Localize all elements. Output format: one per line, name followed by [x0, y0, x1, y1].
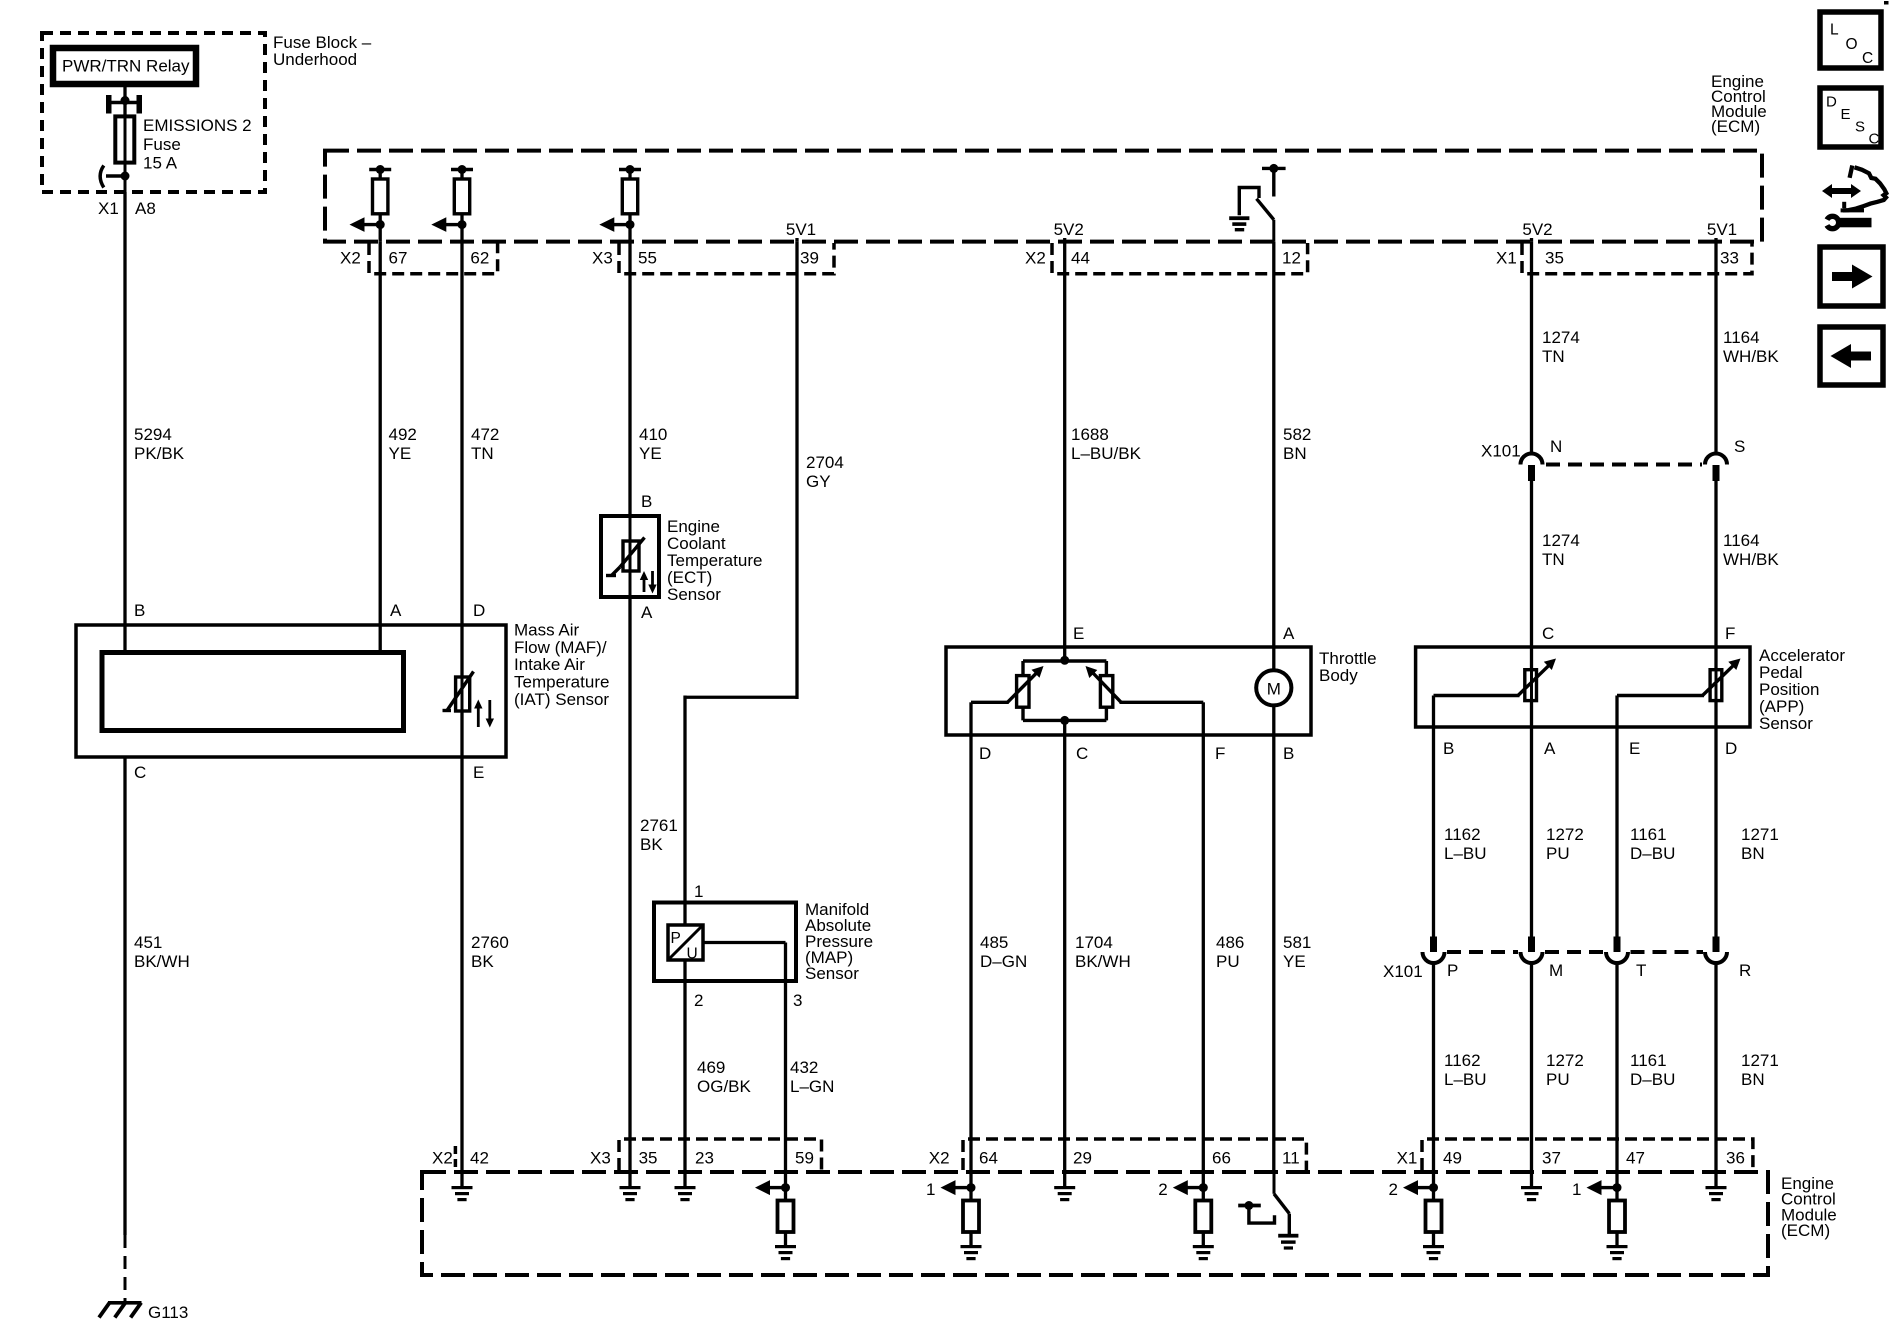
svg-text:1: 1	[1572, 1180, 1581, 1199]
svg-text:1161: 1161	[1630, 825, 1667, 844]
wire 1272 PU lower	[1532, 963, 1584, 1172]
in-line connector X101 P	[1423, 937, 1445, 964]
svg-text:C: C	[1542, 624, 1554, 643]
svg-text:C: C	[1862, 50, 1873, 67]
connector box X2 pins 44 12	[1052, 243, 1308, 274]
wire 1164 WH/BK upper	[1716, 242, 1779, 454]
svg-text:1271: 1271	[1741, 825, 1779, 844]
wire pin1 into P/U	[683, 903, 686, 926]
svg-text:F: F	[1725, 624, 1735, 643]
thermistor IAT	[443, 672, 474, 712]
pull-up resistor pin 55	[619, 165, 641, 242]
potentiometer TPS2	[1086, 666, 1122, 707]
svg-text:485: 485	[980, 933, 1008, 952]
svg-text:29: 29	[1073, 1149, 1092, 1168]
svg-text:PU: PU	[1216, 952, 1240, 971]
svg-text:1: 1	[926, 1180, 935, 1199]
signal arrow pin 47	[1572, 1180, 1622, 1199]
svg-text:1162: 1162	[1444, 825, 1481, 844]
wire fuse to X1 A8	[124, 176, 127, 200]
svg-text:47: 47	[1626, 1149, 1645, 1168]
wire D to IAT thermistor	[460, 625, 463, 677]
signal arrow pin 49	[1389, 1180, 1439, 1199]
connector box X2 pins 64 29 66 11	[963, 1139, 1306, 1170]
svg-text:582: 582	[1283, 425, 1311, 444]
svg-text:33: 33	[1720, 249, 1739, 268]
svg-text:X3: X3	[592, 249, 613, 268]
svg-text:36: 36	[1726, 1149, 1745, 1168]
svg-text:PU: PU	[1546, 1070, 1570, 1089]
connector box X1 pins 35 33	[1522, 243, 1752, 274]
wire 1161 D-BU lower	[1617, 963, 1675, 1172]
fuse block underhood box	[42, 33, 265, 192]
wire 469 OG/BK	[685, 981, 752, 1172]
svg-text:B: B	[1283, 744, 1294, 763]
ground symbol pin 35	[620, 1186, 641, 1201]
pull-up resistor pin 67	[369, 165, 391, 242]
svg-text:D: D	[1725, 739, 1737, 758]
switch to ground pin 12	[1239, 164, 1285, 242]
svg-text:M: M	[1267, 680, 1281, 699]
svg-text:B: B	[641, 492, 652, 511]
svg-text:X2: X2	[929, 1149, 950, 1168]
ground symbol pin 42	[452, 1186, 473, 1201]
ground symbol pin 12 switch	[1229, 216, 1249, 231]
svg-text:5V1: 5V1	[1707, 220, 1737, 239]
wire pin 66	[1202, 1172, 1205, 1201]
label Fuse Block - Underhood	[273, 33, 372, 69]
svg-text:BN: BN	[1741, 1070, 1765, 1089]
svg-text:1164: 1164	[1723, 328, 1760, 347]
MAF/IAT sensor outer box	[76, 625, 506, 757]
svg-text:2704: 2704	[806, 453, 844, 472]
svg-text:1: 1	[694, 882, 703, 901]
svg-text:D–BU: D–BU	[1630, 1070, 1675, 1089]
icon box LOC	[1820, 12, 1881, 68]
svg-text:472: 472	[471, 425, 499, 444]
ECT bidirectional arrows	[640, 571, 657, 594]
svg-text:5V2: 5V2	[1522, 220, 1552, 239]
potentiometer TPS1	[1008, 666, 1044, 707]
label Engine Control Module (ECM) bottom	[1781, 1174, 1837, 1240]
svg-text:1274: 1274	[1542, 531, 1580, 550]
connector labels X3 55 39	[592, 249, 819, 268]
svg-text:469: 469	[697, 1058, 725, 1077]
wire 581 YE	[1274, 735, 1312, 1172]
wire 1162 L-BU upper	[1434, 727, 1487, 937]
svg-text:BN: BN	[1741, 844, 1765, 863]
svg-text:BK/WH: BK/WH	[134, 952, 190, 971]
connector labels X1 35 33	[1496, 249, 1739, 268]
svg-text:D: D	[1826, 94, 1837, 111]
svg-text:1272: 1272	[1546, 825, 1584, 844]
net 5V2 pin 44	[1054, 220, 1084, 242]
connector separator X2 pin 42	[454, 1146, 458, 1170]
svg-text:BN: BN	[1283, 444, 1307, 463]
wire 582 BN	[1274, 242, 1312, 647]
svg-text:23: 23	[695, 1149, 714, 1168]
wire A into MAF module	[379, 625, 382, 653]
signal arrow pin 62	[431, 217, 466, 232]
svg-text:WH/BK: WH/BK	[1723, 347, 1779, 366]
svg-text:Temperature: Temperature	[514, 673, 609, 692]
label Throttle Body	[1319, 649, 1377, 685]
wire D inside APP	[1714, 701, 1717, 727]
potentiometer APP2	[1703, 659, 1741, 701]
svg-text:Body: Body	[1319, 666, 1358, 685]
svg-text:Fuse: Fuse	[143, 135, 181, 154]
dashed wire to G113	[124, 1235, 127, 1301]
wire 1272 PU upper	[1532, 727, 1584, 937]
svg-text:Sensor: Sensor	[1759, 714, 1813, 733]
ground symbol pin 29	[1054, 1186, 1075, 1201]
wire 451 BK/WH	[125, 757, 190, 1235]
icon box right arrow	[1820, 247, 1883, 306]
signal arrow pin 67	[350, 217, 385, 232]
connector box X1 pins 49 37 47 36	[1422, 1139, 1753, 1170]
wire relay to fuse	[123, 87, 126, 116]
wire 472 TN	[462, 242, 499, 625]
svg-text:X2: X2	[1025, 249, 1046, 268]
ground symbol pin 47	[1607, 1245, 1628, 1260]
svg-text:D–GN: D–GN	[980, 952, 1027, 971]
svg-text:S: S	[1855, 119, 1865, 136]
ground symbol pin 36	[1706, 1186, 1727, 1201]
svg-text:39: 39	[800, 249, 819, 268]
label Accelerator Pedal Position (APP) Sensor	[1759, 646, 1845, 733]
in-line connector X101 T	[1606, 937, 1628, 964]
svg-text:M: M	[1549, 961, 1563, 980]
svg-text:X1: X1	[1496, 249, 1517, 268]
in-line connector X101 N	[1521, 454, 1543, 481]
svg-text:N: N	[1550, 437, 1562, 456]
svg-text:X3: X3	[590, 1149, 611, 1168]
connector labels X3 35 23 59	[590, 1149, 814, 1168]
svg-text:O: O	[1846, 36, 1858, 53]
relay contact curve	[100, 166, 129, 188]
svg-text:1161: 1161	[1630, 1051, 1667, 1070]
svg-text:Sensor: Sensor	[805, 964, 859, 983]
pull-up resistor pin 62	[451, 165, 473, 242]
switch contact pin 11	[1238, 1201, 1274, 1223]
svg-text:37: 37	[1542, 1149, 1561, 1168]
wire 2761 BK	[630, 597, 678, 1172]
svg-text:X1: X1	[98, 199, 119, 218]
svg-text:X2: X2	[432, 1149, 453, 1168]
wire 1271 BN lower	[1716, 963, 1779, 1172]
svg-text:64: 64	[979, 1149, 998, 1168]
svg-text:E: E	[1841, 106, 1851, 123]
icon box left arrow	[1820, 327, 1883, 385]
wire pin 23 to ground	[683, 1172, 686, 1186]
svg-text:432: 432	[790, 1058, 818, 1077]
label Engine Coolant Temperature (ECT) Sensor	[667, 517, 762, 604]
svg-text:EMISSIONS 2: EMISSIONS 2	[143, 116, 252, 135]
svg-text:R: R	[1739, 961, 1751, 980]
ground symbol pin 66	[1193, 1245, 1214, 1260]
svg-text:G113: G113	[148, 1303, 188, 1322]
TPS1 wiper lead	[971, 701, 1009, 704]
Engine Control Module ECM top box	[325, 151, 1762, 242]
connector labels X2 44 12	[1025, 249, 1301, 268]
ground symbol pin 64	[961, 1245, 982, 1260]
svg-text:1272: 1272	[1546, 1051, 1584, 1070]
svg-text:L–BU: L–BU	[1444, 844, 1487, 863]
svg-text:492: 492	[389, 425, 417, 444]
TB top rail	[1023, 647, 1106, 676]
svg-text:BK: BK	[471, 952, 494, 971]
svg-text:Intake Air: Intake Air	[514, 655, 585, 674]
wire B into MAF module	[123, 625, 126, 653]
harness dashed link X101 lower	[1447, 950, 1703, 954]
svg-text:P: P	[671, 930, 681, 947]
potentiometer APP1	[1518, 659, 1556, 701]
wire pin 35 to ground	[628, 1172, 631, 1186]
svg-text:2: 2	[694, 991, 703, 1010]
wire A inside APP	[1530, 701, 1533, 727]
wire F into APP pot2	[1714, 647, 1717, 670]
signal arrow pin 66	[1158, 1180, 1208, 1199]
svg-text:X1: X1	[1397, 1149, 1418, 1168]
svg-text:C: C	[1076, 744, 1088, 763]
svg-text:A: A	[1283, 624, 1295, 643]
svg-text:12: 12	[1282, 249, 1301, 268]
TB bottom rail	[1023, 707, 1106, 735]
wire 1164 WH/BK lower segment	[1716, 481, 1779, 647]
wire 1274 TN lower segment	[1532, 481, 1580, 647]
svg-text:YE: YE	[1283, 952, 1306, 971]
svg-text:L–BU/BK: L–BU/BK	[1071, 444, 1142, 463]
wire 485 D-GN	[971, 735, 1027, 1172]
connector labels X2 64 29 66 11	[929, 1149, 1300, 1168]
svg-text:S: S	[1734, 437, 1745, 456]
svg-text:WH/BK: WH/BK	[1723, 550, 1779, 569]
corner tick	[1884, 1, 1889, 5]
svg-text:42: 42	[470, 1149, 489, 1168]
icon box DESC	[1820, 88, 1881, 148]
thermistor ECT	[606, 516, 645, 597]
relay PWR/TRN	[53, 48, 196, 84]
wire E out of thermistor	[460, 711, 463, 757]
svg-text:Underhood: Underhood	[273, 50, 357, 69]
Engine Control Module ECM bottom box	[422, 1172, 1768, 1275]
svg-text:2761: 2761	[640, 816, 678, 835]
svg-text:1271: 1271	[1741, 1051, 1779, 1070]
resistor pin 59	[778, 1201, 794, 1247]
ground symbol pin 49	[1423, 1245, 1444, 1260]
svg-text:11: 11	[1282, 1149, 1300, 1168]
wire pin 59	[784, 1172, 787, 1201]
label Manifold Absolute Pressure (MAP) Sensor	[805, 900, 873, 983]
wire pin 64	[969, 1172, 972, 1201]
net 5V1 pin 33	[1707, 220, 1737, 242]
svg-text:U: U	[687, 946, 698, 963]
svg-text:BK: BK	[640, 835, 663, 854]
ECT sensor box	[601, 516, 659, 597]
wire 1688 L-BU/BK	[1065, 242, 1142, 647]
ground symbol pin 23	[675, 1186, 696, 1201]
TPS2 wiper lead	[1120, 701, 1204, 704]
svg-text:B: B	[134, 601, 145, 620]
svg-text:D: D	[979, 744, 991, 763]
connector labels X2 42	[432, 1149, 489, 1168]
connector box X3 pins 35 23 59	[619, 1139, 822, 1170]
IAT bidirectional arrows	[474, 700, 494, 728]
svg-text:X2: X2	[340, 249, 361, 268]
resistor pin 66	[1195, 1201, 1211, 1247]
connector labels X1 49 37 47 36	[1397, 1149, 1745, 1168]
svg-text:P: P	[1447, 961, 1458, 980]
wire 1162 L-BU lower	[1434, 963, 1487, 1172]
svg-text:OG/BK: OG/BK	[697, 1077, 752, 1096]
svg-text:C: C	[134, 763, 146, 782]
svg-text:5V2: 5V2	[1054, 220, 1084, 239]
label Mass Air Flow (MAF)/Intake Air Temperature (IAT) Sensor	[514, 621, 609, 709]
ground symbol pin 37	[1521, 1186, 1542, 1201]
switch to ground pin 11	[1274, 1172, 1289, 1235]
svg-text:YE: YE	[389, 444, 412, 463]
svg-text:5294: 5294	[134, 425, 172, 444]
svg-text:35: 35	[639, 1149, 658, 1168]
svg-text:Sensor: Sensor	[667, 585, 721, 604]
wire pin 47	[1615, 1172, 1618, 1201]
wire 1161 D-BU upper	[1617, 727, 1675, 937]
motor M throttle	[1256, 647, 1291, 735]
resistor pin 47	[1609, 1201, 1625, 1247]
wire pin2 from P/U	[683, 960, 686, 981]
connector box X2 pins 67 62	[369, 243, 498, 274]
svg-text:PU: PU	[1546, 844, 1570, 863]
svg-text:1688: 1688	[1071, 425, 1109, 444]
svg-text:486: 486	[1216, 933, 1244, 952]
svg-text:T: T	[1636, 961, 1646, 980]
svg-text:15 A: 15 A	[143, 154, 178, 173]
svg-text:67: 67	[389, 249, 408, 268]
svg-text:GY: GY	[806, 472, 831, 491]
svg-text:TN: TN	[1542, 550, 1565, 569]
in-line connector X101 M	[1521, 937, 1543, 964]
svg-text:PK/BK: PK/BK	[134, 444, 185, 463]
resistor pin 64	[963, 1201, 979, 1247]
wire 5294 PK/BK	[125, 192, 185, 625]
ground symbol pin 59	[775, 1245, 796, 1260]
svg-text:L: L	[1830, 22, 1839, 39]
fuse EMISSIONS 2 15 A	[115, 116, 134, 176]
in-line connector X101 R	[1705, 937, 1727, 964]
svg-text:B: B	[1443, 739, 1454, 758]
wire pin 37 to ground	[1530, 1172, 1533, 1186]
svg-text:PWR/TRN Relay: PWR/TRN Relay	[62, 57, 190, 76]
svg-text:A8: A8	[135, 199, 156, 218]
svg-text:451: 451	[134, 933, 162, 952]
wire pin 49	[1432, 1172, 1435, 1201]
svg-text:55: 55	[638, 249, 657, 268]
svg-text:A: A	[1544, 739, 1556, 758]
svg-text:(ECM): (ECM)	[1781, 1221, 1830, 1240]
connector label X1 A8	[98, 199, 156, 218]
svg-text:YE: YE	[639, 444, 662, 463]
svg-text:5V1: 5V1	[786, 220, 816, 239]
throttle body box	[946, 647, 1311, 735]
svg-text:66: 66	[1212, 1149, 1231, 1168]
signal arrow pin 59	[755, 1180, 790, 1195]
svg-text:X101: X101	[1383, 962, 1423, 981]
svg-text:49: 49	[1443, 1149, 1462, 1168]
wire 2760 BK	[462, 757, 509, 1172]
wire F inside TB	[1202, 702, 1205, 735]
svg-text:1274: 1274	[1542, 328, 1580, 347]
ground G113 chassis symbol	[99, 1301, 142, 1318]
signal arrow pin 55	[599, 217, 634, 232]
label EMISSIONS 2 Fuse 15 A	[143, 116, 252, 173]
wire 2704 GY	[685, 242, 844, 903]
wire 410 YE	[630, 242, 667, 516]
svg-text:62: 62	[470, 249, 489, 268]
APP2 wiper lead	[1617, 696, 1704, 728]
MAP sensor box	[654, 903, 796, 982]
svg-text:E: E	[1073, 624, 1084, 643]
svg-text:F: F	[1215, 744, 1225, 763]
svg-text:1164: 1164	[1723, 531, 1760, 550]
svg-text:D–BU: D–BU	[1630, 844, 1675, 863]
svg-text:BK/WH: BK/WH	[1075, 952, 1131, 971]
wire 432 L-GN	[786, 981, 835, 1172]
net 5V2 pin 35	[1522, 220, 1552, 242]
svg-text:35: 35	[1545, 249, 1564, 268]
svg-text:L–GN: L–GN	[790, 1077, 834, 1096]
net 5V1 pin 39	[786, 220, 816, 242]
svg-text:X101: X101	[1481, 442, 1521, 461]
wire 1271 BN upper	[1716, 727, 1779, 937]
svg-text:410: 410	[639, 425, 667, 444]
harness dashed link X101 upper	[1546, 463, 1702, 467]
svg-text:2760: 2760	[471, 933, 509, 952]
wire pin 36 to ground	[1714, 1172, 1717, 1186]
svg-text:(ECM): (ECM)	[1711, 117, 1760, 136]
in-line connector X101 S	[1705, 454, 1727, 481]
svg-text:E: E	[473, 763, 484, 782]
svg-text:A: A	[390, 601, 402, 620]
wire 486 PU	[1203, 735, 1244, 1172]
svg-text:1704: 1704	[1075, 933, 1113, 952]
signal arrow pin 64	[926, 1180, 976, 1199]
svg-text:2: 2	[1389, 1180, 1398, 1199]
svg-text:A: A	[641, 603, 653, 622]
ground symbol pin 11 switch	[1278, 1234, 1298, 1250]
svg-text:581: 581	[1283, 933, 1311, 952]
MAP P/U transducer	[668, 925, 703, 963]
svg-text:TN: TN	[471, 444, 494, 463]
svg-text:L–BU: L–BU	[1444, 1070, 1487, 1089]
wire pin3 from P/U	[703, 943, 786, 982]
svg-text:3: 3	[793, 991, 802, 1010]
APP1 wiper lead	[1434, 696, 1520, 728]
svg-text:TN: TN	[1542, 347, 1565, 366]
svg-text:44: 44	[1071, 249, 1090, 268]
connector box X3 pins 55 39	[619, 243, 834, 274]
svg-text:Flow (MAF)/: Flow (MAF)/	[514, 638, 607, 657]
wire 492 YE	[380, 242, 417, 625]
accelerator pedal position APP sensor box	[1416, 647, 1750, 727]
connector labels X2 67 62	[340, 249, 489, 268]
svg-text:D: D	[473, 601, 485, 620]
icon hand with double arrow and wrench	[1818, 166, 1886, 232]
wire pin 42 to ground	[460, 1172, 463, 1186]
wire D inside TB	[969, 702, 972, 735]
wire 1274 TN upper	[1532, 242, 1580, 454]
MAF inner module rect	[102, 653, 404, 731]
resistor pin 49	[1426, 1201, 1442, 1247]
